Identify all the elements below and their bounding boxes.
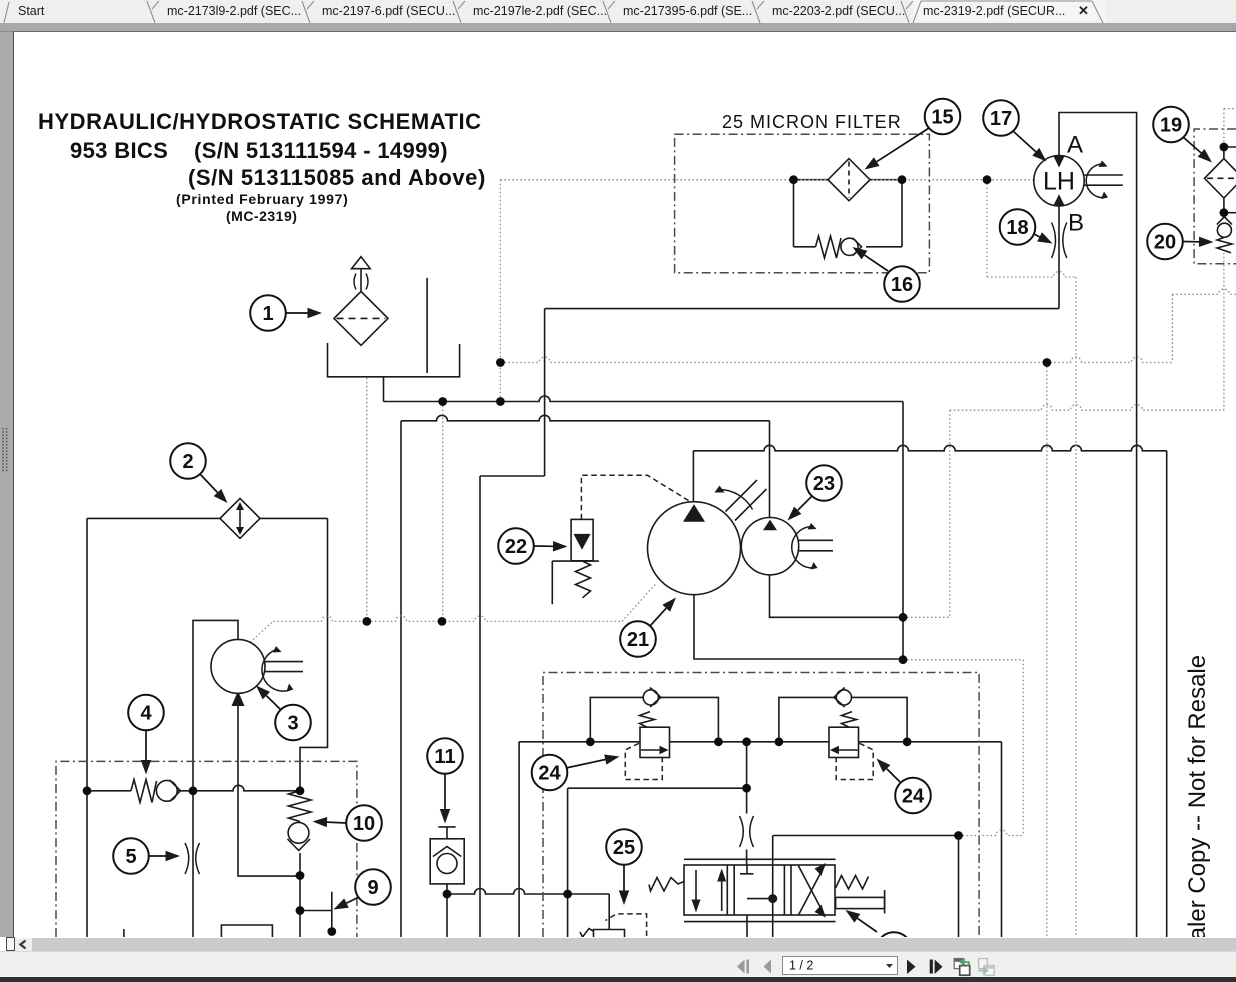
junction dot 300,910 [296, 906, 305, 915]
junction dot 907,742 [903, 737, 912, 746]
pilot dashed item25 box [606, 914, 647, 936]
filter 1 breather diamond [334, 257, 388, 346]
wire left loop right side with jog [300, 518, 328, 790]
wire left loop top y=518 [87, 517, 328, 519]
status bar [0, 951, 1236, 978]
wire relief rail left drop x=519 [518, 742, 520, 937]
filter 15 diamond [828, 159, 870, 201]
svg-text:2: 2 [182, 451, 193, 473]
dotted drop x=500 [499, 180, 501, 402]
wire LH return B port x=1059 [1058, 206, 1060, 309]
wire valve line y=894 [447, 889, 609, 895]
junction dot 300,875 [296, 871, 305, 880]
junction dot 1224,213 [1220, 208, 1229, 217]
dotted link y=660 [903, 659, 1023, 661]
wire valve inner drop x=747 [747, 899, 773, 937]
check valve 16 poppet [841, 238, 862, 256]
svg-text:25: 25 [613, 837, 635, 859]
pump 23 charge [741, 518, 833, 575]
junction dot 500,401 [496, 397, 505, 406]
junction dot 442,401 [438, 397, 447, 406]
balloon 2 [170, 443, 227, 503]
check valve 10 poppet [288, 822, 311, 850]
svg-text:18: 18 [1006, 217, 1028, 239]
directional valve 4-way [684, 859, 836, 921]
wire right24 bypass loop [779, 697, 907, 741]
junction dot 1047,362 [1043, 358, 1052, 367]
enclosure left manifold [56, 761, 357, 937]
junction dot 903,617 [899, 613, 908, 622]
check valve 16 spring [816, 236, 842, 258]
wire LH return y=308 [545, 308, 1059, 310]
junction dot 590,742 [586, 737, 595, 746]
svg-text:9: 9 [367, 877, 378, 899]
enclosure 25 micron filter [675, 134, 930, 272]
wire left24 bypass loop [590, 697, 718, 741]
pilot dashed valve22 to pump21 [581, 475, 690, 519]
wire pump pressure rail y=451 [693, 445, 1166, 450]
svg-text:(MC-2319): (MC-2319) [226, 208, 297, 224]
restrictor 5 [185, 843, 200, 874]
bottom cut spring item25 [580, 929, 593, 938]
dotted LH drop x=987 [986, 180, 988, 277]
balloon 24 right [877, 759, 931, 814]
previous view button [954, 959, 970, 976]
next page button [907, 960, 916, 975]
check valve 10 spring [289, 791, 312, 822]
tank suction pipe [426, 278, 428, 373]
svg-text:24: 24 [538, 763, 561, 785]
junction dot 500,362 [496, 358, 505, 367]
wire pump21 bottom port [694, 595, 903, 660]
svg-text:16: 16 [891, 274, 913, 296]
wire motor3 top port notch [193, 620, 238, 937]
enclosure filter19 [1194, 129, 1236, 264]
svg-text:A: A [1067, 132, 1083, 159]
item 11 inline check valve [430, 839, 464, 884]
valve 22 solenoid body [552, 519, 599, 604]
wire item11 stem [438, 827, 455, 937]
svg-text:LH: LH [1043, 168, 1075, 196]
balloon 17 [983, 100, 1046, 161]
dotted case drain y=621 [273, 616, 622, 622]
junction dot 902,180 [898, 175, 907, 184]
svg-text:11: 11 [434, 746, 455, 768]
pilot dashed right24 box [836, 743, 873, 779]
wire right return vertical x=903 [902, 402, 904, 660]
relief valve 24 right [829, 688, 859, 758]
junction dot 746,788 [742, 784, 751, 793]
balloon 4 [128, 695, 164, 775]
bottom dark strip [0, 977, 1236, 982]
dotted drop x=442 [442, 402, 444, 622]
motor 3 [211, 639, 303, 693]
junction dot 1224,147 [1220, 143, 1229, 152]
junction dot 331,931 [327, 927, 336, 936]
wire LH return drop x=480 [479, 476, 481, 937]
enclosure control valve [543, 673, 979, 938]
svg-text:(S/N 513115085 and Above): (S/N 513115085 and Above) [188, 165, 486, 190]
wire port9 stub [300, 892, 332, 932]
horizontal scrollbar [0, 937, 1236, 951]
junction dot 903,660 [899, 655, 908, 664]
balloon 24 left [532, 755, 620, 791]
svg-text:(Printed February 1997): (Printed February 1997) [176, 191, 349, 207]
wire pump23 bottom port [770, 575, 904, 618]
wire motor3 bottom port [238, 693, 300, 876]
balloon 23 [788, 465, 842, 520]
balloon 15 [865, 99, 961, 170]
directional valve right spring [836, 876, 869, 890]
balloon 5 [113, 838, 180, 874]
balloon 22 [498, 528, 567, 564]
balloon partial bottom right [846, 910, 912, 968]
svg-text:Dealer Copy -- Not for Resale: Dealer Copy -- Not for Resale [1184, 655, 1211, 938]
dotted riser x=1172 [1171, 294, 1173, 362]
junction dot 442,621 [438, 617, 447, 626]
dotted stub y=108 [1224, 108, 1236, 110]
check valve 4 spring [131, 780, 157, 803]
balloon 16 [853, 247, 920, 302]
junction dot 718,742 [714, 737, 723, 746]
junction dot 447,894 [443, 890, 452, 899]
balloon 9 [334, 869, 391, 909]
next view button (disabled) [979, 959, 995, 976]
svg-text:10: 10 [353, 813, 375, 835]
title block [38, 109, 486, 224]
dotted drop x=949 [949, 410, 951, 617]
wire filter15 bridge [794, 180, 903, 247]
svg-text:953 BICS (S/N 513111594 - 1: 953 BICS (S/N 513111594 - 14999) [70, 138, 448, 163]
dotted sensor line y=362 [500, 357, 1172, 362]
wire relief rail y=742 [519, 741, 1001, 743]
dotted drop x=1047 [1046, 363, 1048, 938]
tank reservoir [328, 343, 460, 377]
svg-text:22: 22 [505, 536, 527, 558]
svg-text:24: 24 [902, 786, 925, 808]
balloon 1 [250, 295, 322, 331]
wire valve drain x=772 [772, 836, 774, 938]
svg-text:19: 19 [1160, 115, 1182, 137]
filter 19 diamond [1205, 159, 1236, 198]
junction dot 778,742 [775, 737, 784, 746]
relief valve 24 left [640, 688, 670, 758]
browser tab bar [0, 0, 1236, 23]
wire filter19 stubs [1224, 147, 1236, 213]
wire drain link y=835 [773, 835, 959, 837]
junction dot 958,835 [954, 831, 963, 840]
filter 2 diamond [220, 498, 260, 538]
wire pilot y=788 [568, 787, 747, 789]
wire LH return jog y=476 [480, 475, 545, 477]
svg-text:20: 20 [1154, 232, 1176, 254]
left splitter bar with grip dots [0, 31, 13, 951]
dotted motor3 diagonal [247, 621, 273, 645]
last page button [930, 960, 943, 975]
svg-text:5: 5 [125, 846, 136, 868]
junction dot 746,742 [742, 737, 751, 746]
svg-text:4: 4 [140, 703, 152, 725]
page combo box [783, 957, 898, 975]
balloon 20 [1147, 224, 1213, 260]
wire charge drop x=401 [400, 421, 402, 937]
svg-text:1 / 2: 1 / 2 [789, 959, 813, 973]
wire tank return rail y=401 [384, 396, 904, 402]
bottom tick [123, 929, 125, 937]
dotted link y=410 [950, 405, 1224, 410]
svg-text:17: 17 [990, 108, 1012, 130]
wire pump23 top riser [769, 421, 771, 518]
directional valve actuator [836, 890, 885, 914]
balloon 25 [606, 829, 642, 905]
prev page button (disabled) [764, 960, 772, 974]
dotted drop x=1023 [1022, 660, 1024, 836]
check valve 20 [1217, 217, 1232, 253]
restrictor on valve riser [740, 816, 754, 847]
wire LH supply top loop [1059, 113, 1137, 938]
balloon 3 [256, 686, 311, 741]
dotted link y=277 [987, 272, 1076, 278]
LH drive motor [1034, 156, 1123, 206]
bottom cut box item25 [594, 930, 625, 938]
arrowhead motor3 inflow [232, 691, 245, 706]
wire right pressure drop x=1166 [1166, 451, 1168, 937]
dotted drop x=1076 [1075, 277, 1077, 937]
junction dot 987,180 [983, 175, 992, 184]
wire pump21 top port [692, 451, 694, 502]
bottom cut box left [221, 925, 272, 937]
balloon 18 [1000, 209, 1053, 245]
balloon 21 [620, 598, 676, 657]
svg-text:B: B [1068, 210, 1084, 237]
junction dot 193,791 [189, 786, 198, 795]
pump 21 [648, 480, 767, 595]
wire drain drop x=958 [958, 836, 960, 938]
svg-text:21: 21 [627, 629, 649, 651]
dotted link y=294 [1172, 289, 1236, 294]
gray strip below tabs [0, 23, 1236, 31]
dotted link y=835 [959, 830, 1024, 836]
svg-text:15: 15 [931, 107, 953, 129]
balloon 11 [427, 738, 463, 823]
pilot dashed left24 box [625, 743, 662, 779]
dotted drop x=367 [366, 378, 368, 622]
junction dot 300,791 [296, 786, 305, 795]
wire item25 drop x=609 [608, 894, 610, 930]
check valve 4 poppet [156, 780, 180, 802]
wire tank drop pipe [383, 377, 385, 402]
balloon 19 [1153, 107, 1212, 163]
balloon 10 [313, 805, 382, 841]
dotted filter19 verticals x=1224 [1223, 109, 1225, 411]
svg-text:23: 23 [813, 473, 835, 495]
junction dot 367,621 [362, 617, 371, 626]
wire pilot drop x=567 [567, 788, 569, 937]
wire valve riser x=746 [746, 742, 748, 866]
wire relief rail right drop x=1001 [1001, 742, 1003, 937]
svg-text:3: 3 [287, 713, 298, 735]
restrictor 18 [1052, 223, 1067, 259]
dotted filter line y=180 [500, 179, 1034, 181]
dotted pump21 diagonal [622, 583, 657, 621]
svg-text:1: 1 [262, 303, 273, 325]
svg-text:25 MICRON FILTER: 25 MICRON FILTER [722, 112, 902, 132]
junction dot 794,180 [789, 175, 798, 184]
wire LH return drop x=544 [544, 309, 546, 476]
directional valve left spring [649, 878, 684, 892]
wire check10 branch x=300 [299, 853, 301, 937]
dotted link y=617 [903, 616, 950, 618]
svg-text:HYDRAULIC/HYDROSTATIC SCHEMATI: HYDRAULIC/HYDROSTATIC SCHEMATIC [38, 109, 482, 134]
junction dot 87,791 [83, 786, 92, 795]
first page button (disabled) [737, 960, 749, 974]
wire crossover y=791 with check valve 4 [87, 785, 300, 791]
wire charge suction rail y=421 [401, 415, 770, 420]
junction dot 567,894 [563, 890, 572, 899]
wire left loop left side x=87 [86, 518, 88, 937]
